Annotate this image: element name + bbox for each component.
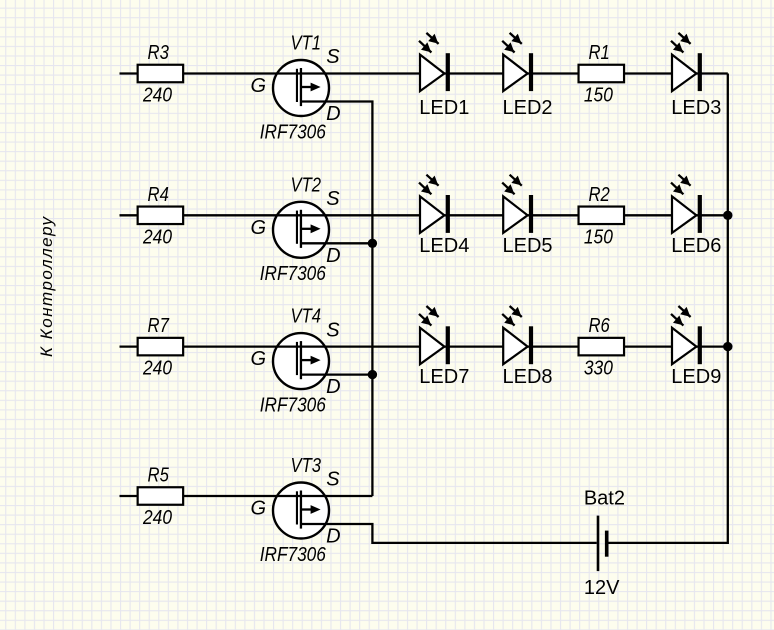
svg-text:12V: 12V bbox=[584, 577, 620, 599]
svg-text:К Контроллеру: К Контроллеру bbox=[37, 216, 56, 358]
svg-text:S: S bbox=[326, 319, 340, 341]
svg-text:R1: R1 bbox=[588, 42, 609, 64]
svg-text:IRF7306: IRF7306 bbox=[260, 263, 327, 285]
svg-text:R7: R7 bbox=[148, 315, 170, 337]
svg-text:S: S bbox=[326, 188, 340, 210]
svg-text:R6: R6 bbox=[588, 315, 610, 337]
svg-text:240: 240 bbox=[142, 226, 172, 248]
svg-text:240: 240 bbox=[142, 85, 172, 107]
svg-text:240: 240 bbox=[142, 358, 172, 380]
svg-text:LED9: LED9 bbox=[671, 366, 721, 388]
svg-text:LED3: LED3 bbox=[671, 97, 721, 119]
svg-text:S: S bbox=[326, 46, 340, 68]
svg-text:LED8: LED8 bbox=[502, 366, 552, 388]
svg-text:VT1: VT1 bbox=[291, 33, 322, 55]
svg-text:LED7: LED7 bbox=[419, 366, 469, 388]
svg-text:LED1: LED1 bbox=[419, 97, 469, 119]
svg-text:R3: R3 bbox=[148, 42, 169, 64]
svg-text:G: G bbox=[251, 348, 267, 370]
svg-text:150: 150 bbox=[584, 226, 613, 248]
svg-text:IRF7306: IRF7306 bbox=[260, 394, 327, 416]
svg-text:R2: R2 bbox=[588, 184, 609, 206]
svg-text:G: G bbox=[251, 217, 267, 239]
svg-text:LED4: LED4 bbox=[419, 235, 469, 257]
svg-text:D: D bbox=[326, 376, 340, 398]
svg-text:S: S bbox=[326, 469, 340, 491]
svg-text:Bat2: Bat2 bbox=[584, 488, 625, 510]
svg-text:240: 240 bbox=[142, 507, 172, 529]
svg-text:IRF7306: IRF7306 bbox=[260, 544, 327, 566]
svg-text:R4: R4 bbox=[148, 184, 169, 206]
svg-text:G: G bbox=[251, 498, 267, 520]
svg-text:D: D bbox=[326, 103, 340, 125]
svg-text:VT2: VT2 bbox=[291, 174, 322, 196]
svg-text:IRF7306: IRF7306 bbox=[260, 121, 327, 143]
svg-text:VT4: VT4 bbox=[291, 306, 322, 328]
svg-text:LED5: LED5 bbox=[502, 235, 552, 257]
svg-text:R5: R5 bbox=[148, 465, 170, 487]
svg-text:D: D bbox=[326, 526, 340, 548]
svg-text:G: G bbox=[251, 75, 267, 97]
svg-text:150: 150 bbox=[584, 85, 613, 107]
svg-text:LED2: LED2 bbox=[502, 97, 552, 119]
svg-text:330: 330 bbox=[584, 358, 613, 380]
svg-text:D: D bbox=[326, 245, 340, 267]
svg-text:VT3: VT3 bbox=[291, 455, 322, 477]
svg-text:LED6: LED6 bbox=[671, 235, 721, 257]
